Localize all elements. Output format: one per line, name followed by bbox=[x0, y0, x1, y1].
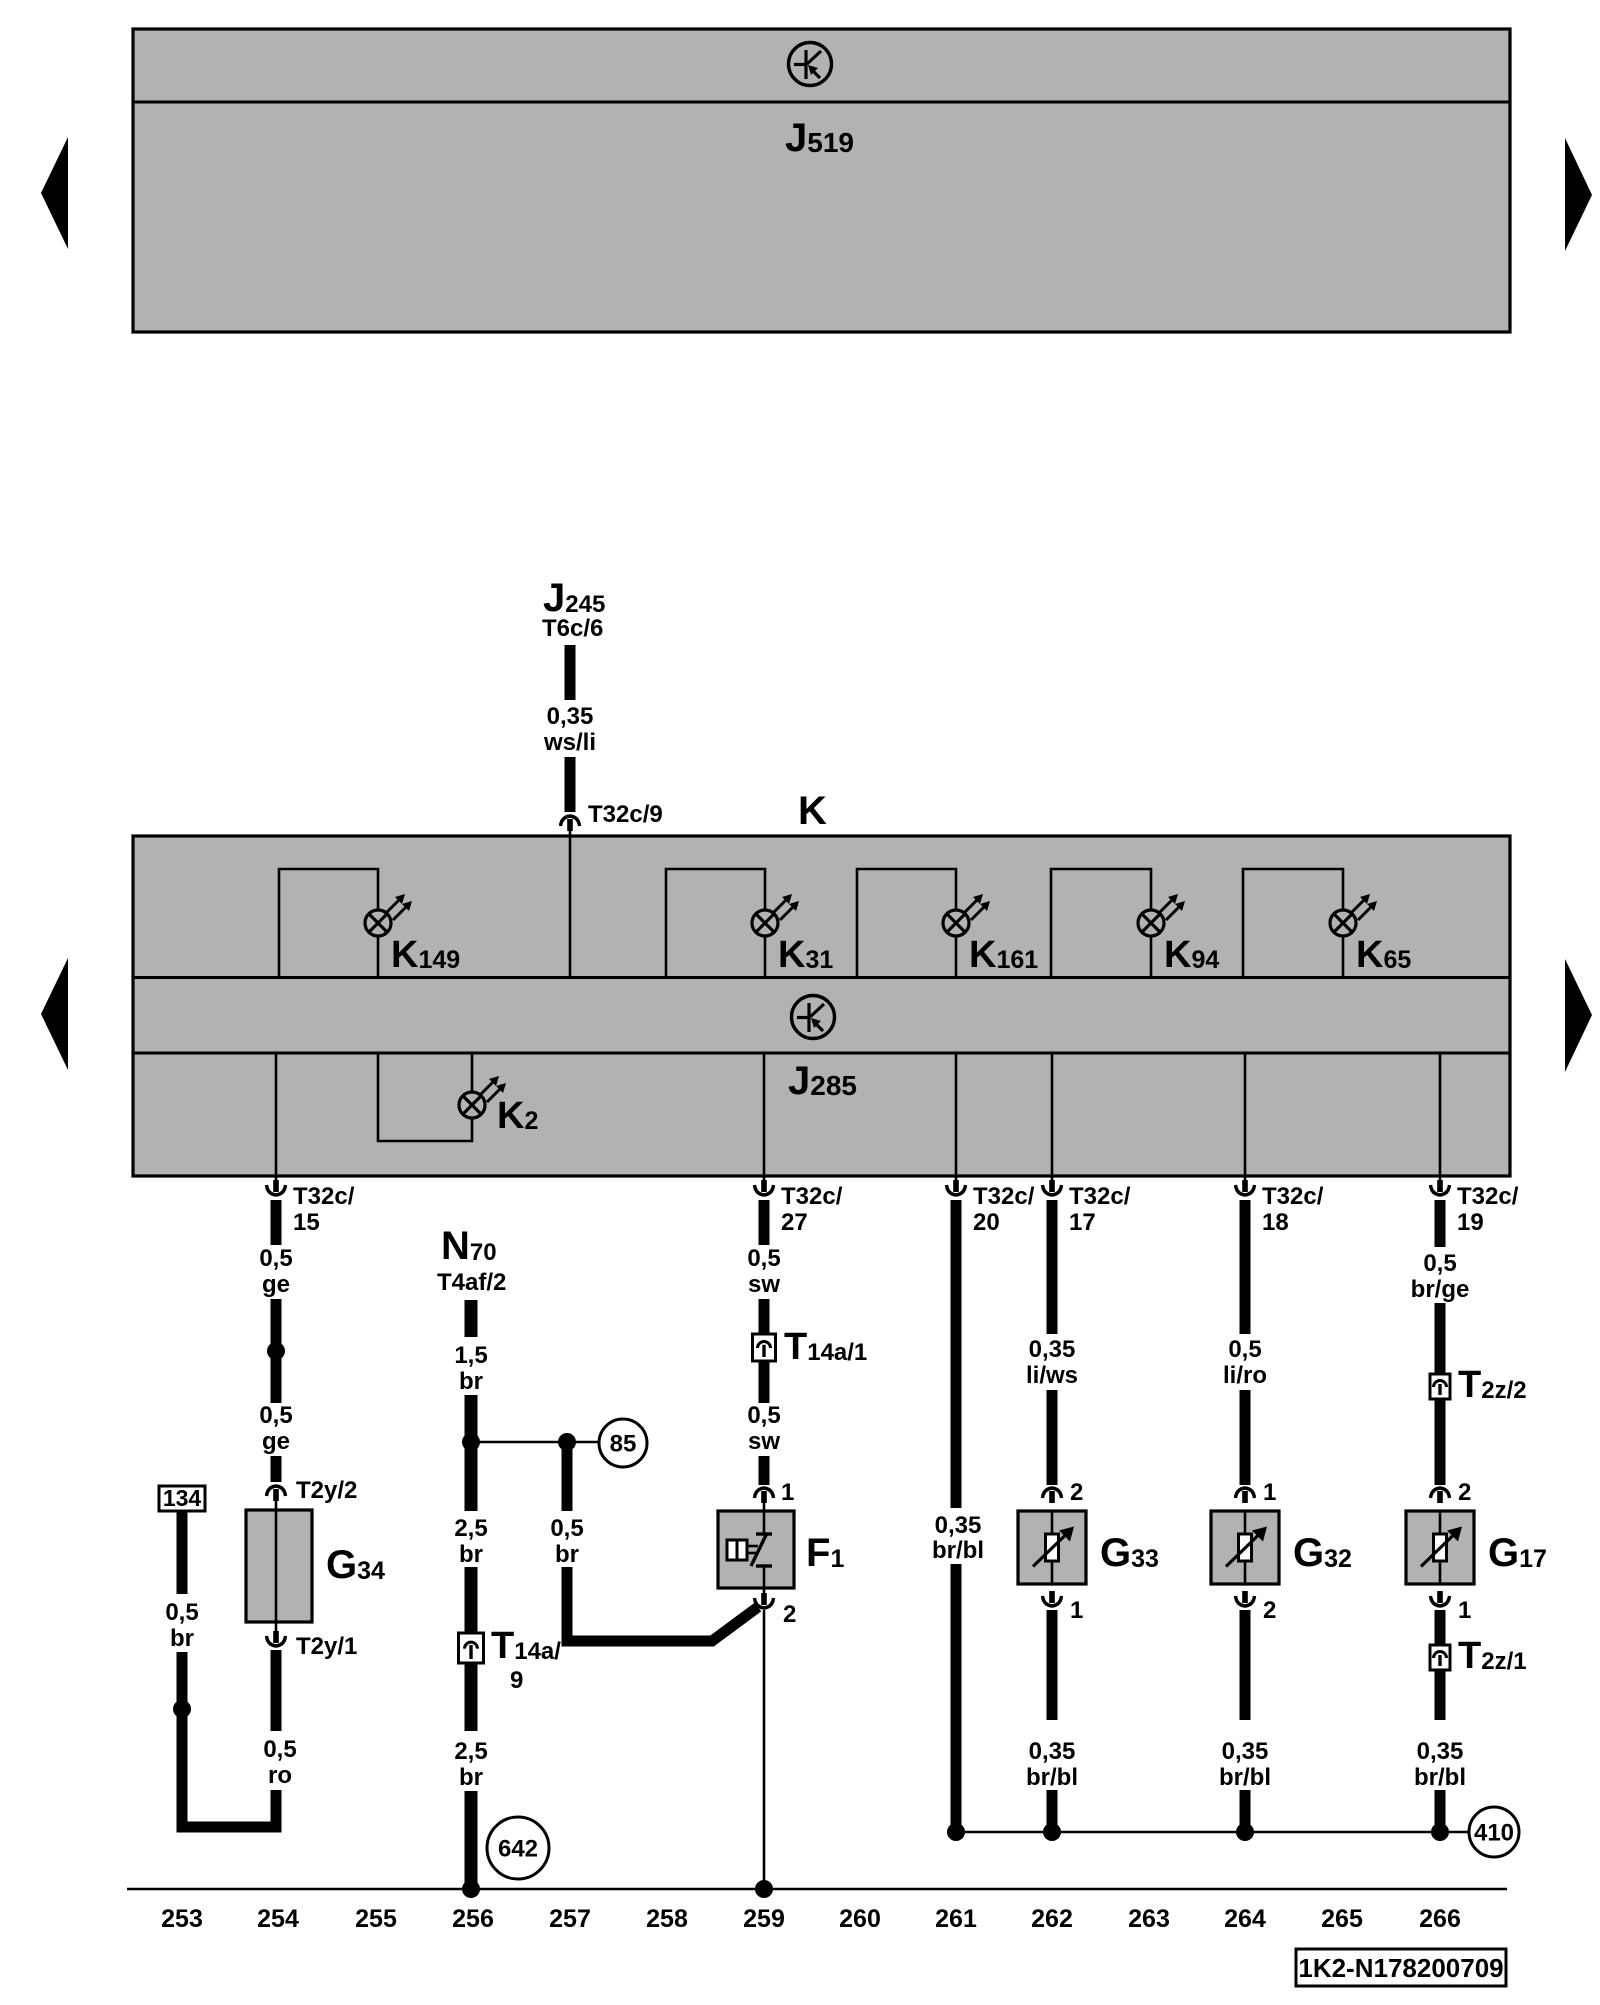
junction on 0,5 ge wire bbox=[267, 1342, 285, 1360]
svg-text:T32c/9: T32c/9 bbox=[588, 801, 663, 828]
svg-text:T32c/: T32c/ bbox=[1069, 1183, 1131, 1210]
right continuation arrow (K box) bbox=[1565, 959, 1592, 1072]
wire 2,5 br to T14a/9 bbox=[465, 1567, 478, 1634]
internal lead to T32c/15 bbox=[275, 1053, 278, 1176]
svg-text:2: 2 bbox=[783, 1601, 796, 1628]
indicator lamp K161 bbox=[943, 894, 990, 936]
svg-text:9: 9 bbox=[510, 1667, 523, 1694]
pin lead T32c/19 bbox=[1439, 1176, 1442, 1189]
pin connector T32c/15 bbox=[267, 1180, 286, 1195]
svg-text:20: 20 bbox=[973, 1209, 1000, 1236]
pin lead T32c/27 bbox=[763, 1176, 766, 1189]
svg-text:0,5: 0,5 bbox=[747, 1402, 780, 1429]
sender G34 box bbox=[246, 1510, 312, 1622]
pin lead T32c/15 bbox=[275, 1176, 278, 1189]
pin connector T32c/17 bbox=[1043, 1180, 1062, 1195]
svg-text:br: br bbox=[170, 1625, 194, 1652]
lamp loop wiring K94 bbox=[1051, 869, 1151, 978]
pin lead into K box bbox=[569, 824, 572, 836]
svg-text:F1: F1 bbox=[806, 1531, 844, 1575]
wire to T2z/1 bbox=[1435, 1610, 1446, 1646]
svg-text:K: K bbox=[798, 789, 827, 833]
wire 0,5 br segment 2 bbox=[177, 1652, 188, 1827]
ground junction track 264 bbox=[1236, 1823, 1254, 1841]
svg-text:T2z/2: T2z/2 bbox=[1458, 1364, 1527, 1406]
pin connector T2y/1 bbox=[267, 1631, 286, 1646]
self-diagnosis symbol in J519 bbox=[789, 43, 832, 86]
lamp K149 lower lead bbox=[377, 935, 380, 978]
svg-text:0,35: 0,35 bbox=[547, 703, 594, 730]
lead from F1 pin 2 to ground track bbox=[763, 1610, 766, 1886]
svg-text:256: 256 bbox=[452, 1905, 494, 1933]
indicator lamp K149 bbox=[365, 894, 412, 936]
svg-text:254: 254 bbox=[257, 1905, 299, 1933]
svg-text:N70: N70 bbox=[441, 1224, 497, 1268]
svg-text:0,5: 0,5 bbox=[550, 1515, 583, 1542]
svg-text:1,5: 1,5 bbox=[454, 1342, 487, 1369]
svg-text:G34: G34 bbox=[326, 1543, 385, 1587]
pin lead T32c/20 bbox=[955, 1176, 958, 1189]
junction terminal 85 branch bbox=[558, 1433, 576, 1451]
svg-text:2: 2 bbox=[1070, 1479, 1083, 1506]
ground wire elbow (track 253-254) bbox=[182, 1822, 276, 1827]
self-diagnosis symbol in J285 bbox=[792, 996, 835, 1039]
svg-text:2,5: 2,5 bbox=[454, 1738, 487, 1765]
svg-text:br/bl: br/bl bbox=[932, 1537, 984, 1564]
svg-text:br: br bbox=[459, 1368, 483, 1395]
wire 0,5 br upper segment (track 257) bbox=[562, 1447, 573, 1511]
svg-text:br/ge: br/ge bbox=[1411, 1276, 1470, 1303]
wire 0,5 sw segment 1 bbox=[759, 1200, 770, 1245]
svg-text:0,35: 0,35 bbox=[1222, 1738, 1269, 1765]
wire 0,5 sw segment 2 bbox=[759, 1299, 770, 1336]
ground junction track 262 bbox=[1043, 1823, 1061, 1841]
connector T14a/9 bbox=[459, 1633, 484, 1663]
wire 0,5 br/ge segment 2 bbox=[1435, 1303, 1446, 1375]
indicator lamp K2 bbox=[459, 1076, 506, 1118]
pin connector G33/1 bbox=[1043, 1591, 1062, 1606]
wire 0,35 br/bl lower segment (track 261) bbox=[951, 1564, 962, 1829]
svg-text:0,5: 0,5 bbox=[259, 1245, 292, 1272]
pin connector T32c/27 bbox=[755, 1180, 774, 1195]
pin lead T32c/17 bbox=[1051, 1176, 1054, 1189]
in-line reference 134 box bbox=[159, 1485, 205, 1511]
terminal 85 bbox=[599, 1419, 647, 1467]
svg-text:T2y/1: T2y/1 bbox=[296, 1633, 357, 1660]
svg-text:ge: ge bbox=[262, 1271, 290, 1298]
svg-text:258: 258 bbox=[646, 1905, 688, 1933]
svg-text:2,5: 2,5 bbox=[454, 1515, 487, 1542]
svg-text:T32c/: T32c/ bbox=[1457, 1183, 1519, 1210]
wire 2,5 br below T14a/9 bbox=[465, 1663, 478, 1731]
lamp loop wiring K161 bbox=[857, 869, 956, 978]
svg-text:0,35: 0,35 bbox=[1417, 1738, 1464, 1765]
wire 0,35 br/bl lower (track 264) bbox=[1240, 1790, 1251, 1829]
pin connector G17/1 bbox=[1431, 1591, 1450, 1606]
svg-text:ws/li: ws/li bbox=[543, 729, 596, 756]
pin connector G33/2 bbox=[1043, 1488, 1062, 1503]
svg-text:262: 262 bbox=[1031, 1905, 1073, 1933]
pin connector F1/1 bbox=[755, 1488, 774, 1503]
svg-text:T32c/: T32c/ bbox=[293, 1183, 355, 1210]
K box divider line 2 bbox=[133, 1052, 1510, 1055]
indicator lamp K31 bbox=[752, 894, 799, 936]
svg-text:134: 134 bbox=[163, 1485, 202, 1511]
svg-text:642: 642 bbox=[498, 1836, 538, 1863]
wire 0,35 br/bl long segment (track 261) bbox=[951, 1200, 962, 1508]
svg-text:2: 2 bbox=[1458, 1479, 1471, 1506]
control unit K (instrument cluster) box bbox=[133, 836, 1510, 1176]
svg-text:27: 27 bbox=[781, 1209, 808, 1236]
internal lead G34 bbox=[275, 1510, 278, 1622]
svg-text:1: 1 bbox=[1458, 1597, 1471, 1624]
oil pressure switch F1 box bbox=[718, 1511, 794, 1588]
svg-text:G33: G33 bbox=[1100, 1531, 1159, 1575]
junction on 0,5 br wire bbox=[173, 1700, 191, 1718]
svg-text:T14a/1: T14a/1 bbox=[784, 1326, 867, 1368]
svg-text:266: 266 bbox=[1419, 1905, 1461, 1933]
lamp K161 lower lead bbox=[955, 935, 958, 978]
wire 0,5 br segment 1 (track 253) bbox=[177, 1511, 188, 1594]
svg-text:sw: sw bbox=[748, 1271, 780, 1298]
wire 0,5 ge segment 3 bbox=[271, 1456, 282, 1482]
svg-text:2: 2 bbox=[1263, 1597, 1276, 1624]
internal lead from T32c/9 to rail bbox=[569, 836, 572, 978]
svg-text:G17: G17 bbox=[1488, 1531, 1547, 1575]
wire 0,35 ws/li upper segment bbox=[565, 645, 576, 700]
sensor G17 box bbox=[1406, 1511, 1474, 1584]
indicator lamp K94 bbox=[1138, 894, 1185, 936]
lamp loop wiring K2 bbox=[378, 1053, 472, 1141]
svg-text:T14a/: T14a/ bbox=[491, 1625, 561, 1667]
wire 0,35 br/bl upper (track 262) bbox=[1047, 1610, 1058, 1720]
svg-text:18: 18 bbox=[1262, 1209, 1289, 1236]
left continuation arrow (K box) bbox=[41, 958, 68, 1070]
ground junction track 266 bbox=[1431, 1823, 1449, 1841]
svg-text:0,35: 0,35 bbox=[1029, 1336, 1076, 1363]
lamp loop wiring K31 bbox=[666, 869, 765, 978]
svg-text:T32c/: T32c/ bbox=[973, 1183, 1035, 1210]
wire 2,5 br upper segment bbox=[465, 1395, 478, 1511]
svg-text:J245: J245 bbox=[543, 576, 605, 620]
svg-text:br: br bbox=[459, 1764, 483, 1791]
svg-text:T32c/: T32c/ bbox=[781, 1183, 843, 1210]
indicator lamp K65 bbox=[1330, 894, 1377, 936]
lamp K2 upper lead bbox=[471, 1053, 474, 1092]
internal lead to T32c/20 bbox=[955, 1053, 958, 1176]
pin lead out of G34 bbox=[275, 1622, 278, 1639]
svg-text:0,35: 0,35 bbox=[935, 1512, 982, 1539]
wire 0,35 br/bl upper (track 266) bbox=[1435, 1670, 1446, 1720]
wire elbow to F1 pin 2 bbox=[567, 1607, 758, 1641]
svg-text:ge: ge bbox=[262, 1428, 290, 1455]
pin connector G17/2 bbox=[1431, 1488, 1450, 1503]
pin connector T32c/18 bbox=[1236, 1180, 1255, 1195]
wire 0,35 br/bl lower (track 262) bbox=[1047, 1790, 1058, 1829]
svg-text:G32: G32 bbox=[1293, 1531, 1352, 1575]
pin lead T32c/18 bbox=[1244, 1176, 1247, 1189]
internal lead to T32c/19 bbox=[1439, 1053, 1442, 1176]
svg-text:br/bl: br/bl bbox=[1026, 1764, 1078, 1791]
svg-text:259: 259 bbox=[743, 1905, 785, 1933]
right continuation arrow (top) bbox=[1565, 138, 1592, 251]
svg-text:0,35: 0,35 bbox=[1029, 1738, 1076, 1765]
pin connector G32/1 bbox=[1236, 1488, 1255, 1503]
connector T2z/1 bbox=[1430, 1645, 1450, 1670]
wire 0,5 li/ro segment 2 bbox=[1240, 1390, 1251, 1485]
lamp K31 lower lead bbox=[764, 935, 767, 978]
diagram reference 1K2-N178200709 bbox=[1296, 1949, 1506, 1986]
wire 0,35 br/bl upper (track 264) bbox=[1240, 1610, 1251, 1720]
wire 0,35 li/ws segment 2 bbox=[1047, 1390, 1058, 1485]
ground designation 642 bbox=[487, 1817, 549, 1879]
svg-text:li/ro: li/ro bbox=[1223, 1362, 1267, 1389]
connector T2z/2 bbox=[1430, 1374, 1450, 1399]
svg-text:br/bl: br/bl bbox=[1219, 1764, 1271, 1791]
svg-text:0,5: 0,5 bbox=[1423, 1250, 1456, 1277]
svg-text:0,5: 0,5 bbox=[165, 1599, 198, 1626]
wire 0,5 ro segment 2 bbox=[271, 1790, 282, 1827]
pin connector F1/2 bbox=[755, 1593, 774, 1608]
internal lead to T32c/27 bbox=[763, 1053, 766, 1176]
svg-text:257: 257 bbox=[549, 1905, 591, 1933]
pin connector T32c/9 bbox=[561, 816, 580, 831]
ground junction track 256 bbox=[462, 1880, 480, 1898]
svg-text:19: 19 bbox=[1457, 1209, 1484, 1236]
svg-text:260: 260 bbox=[839, 1905, 881, 1933]
F1 switch symbol bbox=[727, 1494, 772, 1600]
svg-text:253: 253 bbox=[161, 1905, 203, 1933]
lamp loop wiring K149 bbox=[279, 869, 378, 978]
svg-text:264: 264 bbox=[1224, 1905, 1266, 1933]
pin connector T32c/20 bbox=[947, 1180, 966, 1195]
svg-text:15: 15 bbox=[293, 1209, 320, 1236]
wire 0,35 li/ws segment 1 bbox=[1047, 1200, 1058, 1334]
svg-text:sw: sw bbox=[748, 1428, 780, 1455]
internal lead to T32c/18 bbox=[1244, 1053, 1247, 1176]
pin lead into G34 bbox=[275, 1494, 278, 1511]
svg-text:0,5: 0,5 bbox=[1228, 1336, 1261, 1363]
svg-text:T6c/6: T6c/6 bbox=[542, 615, 603, 642]
K box divider line 1 bbox=[133, 976, 1510, 979]
connector T14a/1 bbox=[753, 1334, 776, 1361]
svg-text:17: 17 bbox=[1069, 1209, 1096, 1236]
svg-text:1: 1 bbox=[1070, 1597, 1083, 1624]
svg-text:255: 255 bbox=[355, 1905, 397, 1933]
wire 0,5 ge segment 2 bbox=[271, 1299, 282, 1403]
ground junction track 261 bbox=[947, 1823, 965, 1841]
svg-text:0,5: 0,5 bbox=[259, 1402, 292, 1429]
svg-text:410: 410 bbox=[1474, 1820, 1514, 1847]
wire 2,5 br to ground track bbox=[465, 1791, 478, 1886]
lamp K94 lower lead bbox=[1150, 935, 1153, 978]
wire 0,35 br/bl lower (track 266) bbox=[1435, 1790, 1446, 1829]
wire 0,5 ro segment 1 bbox=[271, 1650, 282, 1731]
svg-text:0,5: 0,5 bbox=[263, 1736, 296, 1763]
svg-text:85: 85 bbox=[610, 1431, 637, 1458]
internal lead to T32c/17 bbox=[1051, 1053, 1054, 1176]
wire 0,5 li/ro segment 1 bbox=[1240, 1200, 1251, 1334]
wire 0,5 sw segment 4 bbox=[759, 1456, 770, 1485]
J519 inner divider line bbox=[133, 101, 1510, 104]
sensor G33 box bbox=[1018, 1511, 1086, 1584]
svg-text:1: 1 bbox=[1263, 1479, 1276, 1506]
wire 0,5 sw segment 3 bbox=[759, 1361, 770, 1403]
lamp loop wiring K65 bbox=[1243, 869, 1343, 978]
control unit J519 box bbox=[133, 29, 1510, 332]
wire 0,5 ge segment 1 bbox=[271, 1200, 282, 1245]
svg-text:T2y/2: T2y/2 bbox=[296, 1477, 357, 1504]
wire 0,5 br/ge segment 3 bbox=[1435, 1399, 1446, 1485]
svg-text:T2z/1: T2z/1 bbox=[1458, 1635, 1527, 1677]
wire 0,35 ws/li lower segment bbox=[565, 757, 576, 812]
ground junction track 259 bbox=[755, 1880, 773, 1898]
svg-text:265: 265 bbox=[1321, 1905, 1363, 1933]
svg-text:ro: ro bbox=[268, 1762, 292, 1789]
ground designation 410 bbox=[1469, 1807, 1519, 1857]
wire 1,5 br segment bbox=[465, 1300, 478, 1337]
svg-text:1K2-N178200709: 1K2-N178200709 bbox=[1298, 1953, 1503, 1983]
svg-text:0,5: 0,5 bbox=[747, 1245, 780, 1272]
svg-text:1: 1 bbox=[781, 1479, 794, 1506]
pin connector T32c/19 bbox=[1431, 1180, 1450, 1195]
svg-text:br: br bbox=[555, 1541, 579, 1568]
lamp K65 lower lead bbox=[1342, 935, 1345, 978]
svg-text:261: 261 bbox=[935, 1905, 977, 1933]
svg-text:T32c/: T32c/ bbox=[1262, 1183, 1324, 1210]
current track rail bbox=[127, 1888, 1507, 1891]
junction N70/85 bbox=[462, 1433, 480, 1451]
pin connector T2y/2 bbox=[267, 1486, 286, 1501]
svg-text:263: 263 bbox=[1128, 1905, 1170, 1933]
wire 0,5 br/ge segment 1 bbox=[1435, 1200, 1446, 1247]
svg-text:br/bl: br/bl bbox=[1414, 1764, 1466, 1791]
svg-text:T4af/2: T4af/2 bbox=[437, 1269, 506, 1296]
wire 0,5 br lower segment bbox=[562, 1567, 573, 1641]
svg-text:li/ws: li/ws bbox=[1026, 1362, 1078, 1389]
ground bus wire to 410 bbox=[956, 1831, 1468, 1834]
sensor G32 box bbox=[1211, 1511, 1279, 1584]
left continuation arrow (top) bbox=[41, 137, 68, 249]
pin connector G32/2 bbox=[1236, 1591, 1255, 1606]
svg-text:br: br bbox=[459, 1541, 483, 1568]
wire to terminal 85 bbox=[471, 1441, 598, 1444]
